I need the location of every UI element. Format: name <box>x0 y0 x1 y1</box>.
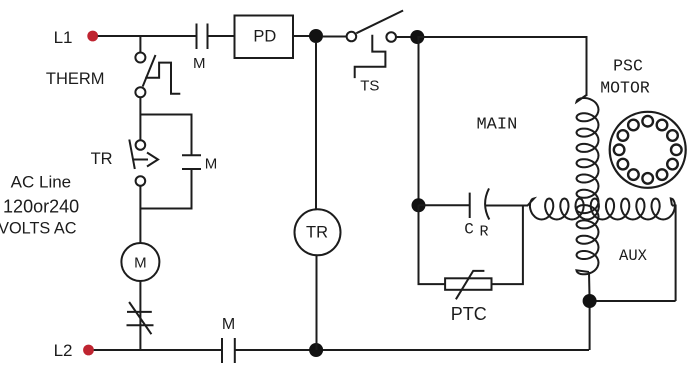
wire PD to node <box>293 35 322 37</box>
winding MAIN vertical coil <box>577 95 599 274</box>
capacitor M plates (loop) <box>182 155 201 169</box>
junction dot E <box>583 294 597 308</box>
wire bottom rail left <box>94 349 222 351</box>
wire TR to coil M <box>139 186 141 243</box>
svg-text:MOTOR: MOTOR <box>600 78 650 97</box>
thermal element TS <box>355 35 386 78</box>
svg-text:PD: PD <box>253 28 276 46</box>
switch TS blade <box>356 11 403 34</box>
svg-text:AUX: AUX <box>619 247 648 265</box>
switch THERM upper terminal <box>135 53 145 63</box>
capacitor CR flat plate <box>469 193 471 218</box>
winding AUX horizontal coil <box>528 199 675 220</box>
svg-text:TR: TR <box>91 150 113 168</box>
svg-text:TS: TS <box>360 77 379 94</box>
resistor PTC box <box>445 278 491 290</box>
svg-text:L1: L1 <box>54 28 73 47</box>
svg-text:L2: L2 <box>54 341 73 360</box>
wire node B down <box>418 37 420 205</box>
switch TS left terminal <box>347 32 357 42</box>
slash PTC <box>456 271 485 299</box>
svg-text:PSC: PSC <box>613 57 643 76</box>
wire TR coil to bottom rail <box>316 255 318 350</box>
svg-text:M: M <box>134 255 147 272</box>
contact M top plates <box>197 24 208 50</box>
wire M-cap loop top <box>140 115 191 156</box>
wire TS to node B <box>396 36 419 38</box>
wire THERM drop <box>139 36 141 53</box>
contact M bottom plates <box>222 338 235 363</box>
wire node to TS <box>323 36 347 38</box>
svg-text:M: M <box>222 316 235 333</box>
wire M-cap loop bottom <box>140 169 191 209</box>
svg-text:MAIN: MAIN <box>476 116 517 135</box>
rotor bars <box>614 116 682 184</box>
wire CR to coil tee <box>485 205 528 207</box>
coil TR circle <box>295 209 341 255</box>
switch THERM blade <box>143 55 156 87</box>
svg-text:VOLTS AC: VOLTS AC <box>0 220 77 238</box>
coil M circle <box>121 243 159 281</box>
overload heater <box>127 302 154 334</box>
wire bottom rail right <box>235 349 589 351</box>
wire node A to TR coil <box>315 42 317 209</box>
wire node D to capacitor CR <box>419 204 470 206</box>
terminal L1 <box>87 31 98 42</box>
svg-text:PTC: PTC <box>451 304 487 324</box>
junction dot C <box>309 343 323 357</box>
wire THERM to junction <box>139 97 141 140</box>
wire contact to PD <box>208 35 235 37</box>
svg-text:TR: TR <box>306 224 328 242</box>
wire coil right end down <box>672 206 676 302</box>
rotor outer circle <box>610 112 686 188</box>
svg-text:C: C <box>464 220 474 238</box>
svg-text:M: M <box>193 55 206 72</box>
junction dot A <box>309 29 323 43</box>
svg-text:120or240: 120or240 <box>3 196 79 216</box>
junction dot D <box>412 198 426 212</box>
switch TR blade <box>129 140 135 170</box>
junction dot B <box>410 30 424 44</box>
capacitor CR curved plate <box>485 188 489 219</box>
wire PTC branch right <box>492 206 523 285</box>
box PD <box>235 16 294 59</box>
wire coil bottom to node E <box>588 272 591 350</box>
terminal L2 <box>83 345 94 356</box>
wire top rail right with corner down to MAIN <box>417 37 586 96</box>
svg-text:R: R <box>479 223 488 240</box>
svg-text:AC Line: AC Line <box>11 172 71 191</box>
switch TR arrow <box>133 153 159 167</box>
switch TS right terminal <box>386 32 396 42</box>
switch TR lower terminal <box>136 176 146 186</box>
switch THERM lower terminal <box>135 87 145 97</box>
svg-text:THERM: THERM <box>46 70 105 88</box>
switch TR upper terminal <box>136 140 146 150</box>
thermal element THERM <box>145 63 180 94</box>
wire AUX bottom <box>590 300 676 302</box>
svg-text:M: M <box>205 155 218 172</box>
wire top rail left <box>98 35 197 37</box>
wire PTC branch left <box>419 205 446 284</box>
wire coil M to bottom rail <box>139 281 141 350</box>
